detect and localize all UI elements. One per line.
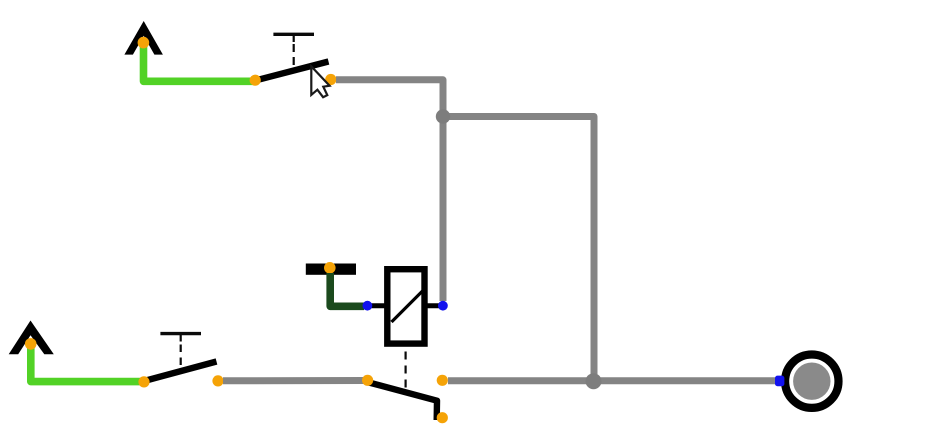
pin L1 left (blue) bbox=[775, 376, 784, 387]
switch SW2 (open, bottom) bbox=[146, 334, 217, 381]
wire (dark green, G1 to relay coil left pin) bbox=[330, 273, 364, 306]
power supply symbol P2 (bottom left, + arrow) bbox=[9, 321, 54, 355]
node SW1 right terminal (orange dot) bbox=[325, 74, 336, 85]
wire (green, P2 to switch SW2) bbox=[31, 344, 144, 382]
switch SW1 (open, top) bbox=[256, 34, 329, 80]
node P2 terminal (orange dot) bbox=[25, 338, 37, 350]
wire (gray, junction A to lamp branch, via corner) bbox=[443, 117, 594, 381]
node SW1 left terminal (orange dot) bbox=[250, 75, 261, 86]
wire (gray, SW2 to relay contact) bbox=[223, 377, 365, 384]
wire (green, P1 to switch SW1) bbox=[144, 44, 256, 81]
wire (gray, relay contact to lamp) bbox=[448, 377, 780, 384]
node SW2 left terminal (orange dot) bbox=[138, 376, 149, 387]
junction A (gray dot) bbox=[436, 109, 450, 123]
wire (gray, SW1 to relay coil pin, via corner) bbox=[336, 80, 443, 301]
ground symbol G1 (0V bar) bbox=[306, 264, 356, 275]
node SW2 right terminal (orange dot) bbox=[212, 375, 223, 386]
node K1a right terminal (orange dot) bbox=[437, 375, 448, 386]
lamp L1 bbox=[785, 355, 838, 408]
node P1 terminal (orange dot) bbox=[138, 37, 150, 49]
relay contact switch K1a (open lever) bbox=[369, 383, 437, 421]
power supply symbol P1 (top left, + arrow) bbox=[124, 21, 162, 55]
pin K1 coil left (blue) bbox=[363, 301, 373, 311]
mouse cursor bbox=[311, 66, 329, 97]
node K1a lever end (orange dot) bbox=[437, 412, 448, 423]
junction B (gray dot) bbox=[586, 373, 602, 389]
node G1 terminal (orange dot) bbox=[324, 262, 336, 274]
relay coil K1 bbox=[366, 269, 441, 389]
pin K1 coil right (blue) bbox=[438, 301, 448, 311]
node K1a left terminal (orange dot) bbox=[362, 375, 373, 386]
